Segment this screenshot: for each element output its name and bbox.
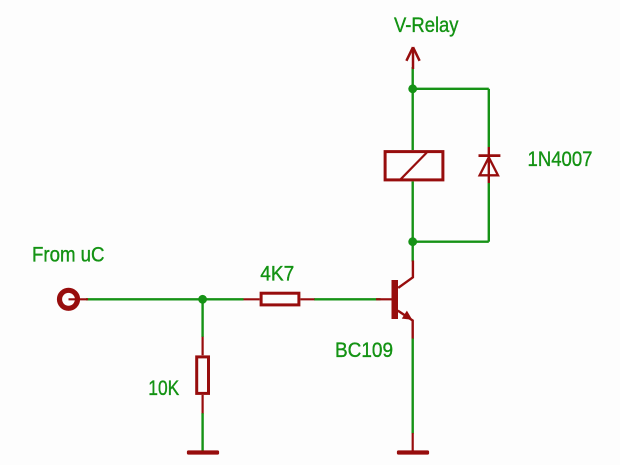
- svg-text:V-Relay: V-Relay: [394, 13, 459, 37]
- svg-text:BC109: BC109: [335, 338, 393, 362]
- svg-text:10K: 10K: [148, 376, 180, 400]
- svg-text:1N4007: 1N4007: [528, 147, 593, 171]
- svg-text:From uC: From uC: [32, 243, 105, 267]
- svg-text:4K7: 4K7: [260, 262, 294, 286]
